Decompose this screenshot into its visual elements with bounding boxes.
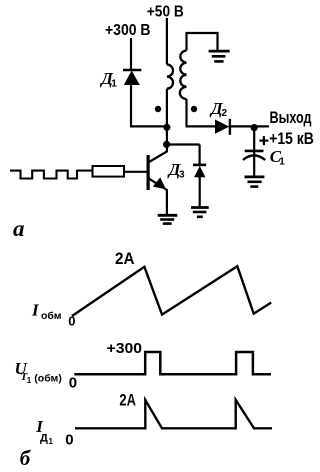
svg-text:б: б: [20, 446, 32, 470]
svg-text:0: 0: [68, 314, 75, 329]
svg-text:0: 0: [69, 375, 77, 392]
svg-text:а: а: [13, 216, 25, 241]
svg-text:+15 кВ: +15 кВ: [269, 129, 314, 148]
svg-text:Д: Д: [40, 433, 48, 445]
svg-text:3: 3: [179, 170, 185, 181]
svg-text:2: 2: [222, 108, 228, 119]
svg-text:+300: +300: [107, 340, 143, 357]
svg-text:0: 0: [65, 431, 73, 448]
svg-text:2А: 2А: [119, 392, 136, 410]
svg-text:1: 1: [279, 157, 285, 168]
svg-text:Выход: Выход: [270, 109, 312, 127]
svg-text:1: 1: [27, 376, 32, 385]
svg-text:обм: обм: [41, 310, 62, 322]
svg-text:+300 В: +300 В: [105, 22, 151, 39]
svg-text:(обм): (обм): [34, 372, 62, 384]
svg-text:1: 1: [111, 78, 117, 89]
svg-text:2А: 2А: [115, 250, 135, 268]
svg-text:1: 1: [49, 437, 54, 446]
svg-text:+50 В: +50 В: [147, 3, 184, 20]
